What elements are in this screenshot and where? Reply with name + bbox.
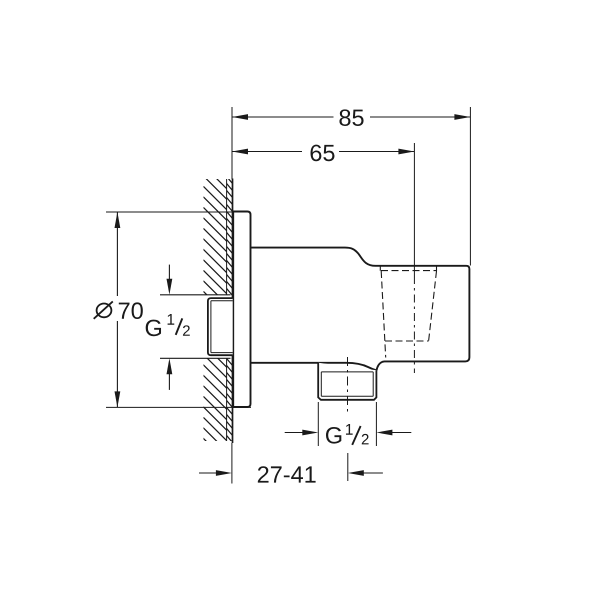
extension line wall top (85/65 left) bbox=[231, 107, 233, 179]
bottom G1/2 label bbox=[326, 424, 369, 445]
dimension 27-41 left arrow bbox=[199, 472, 217, 474]
dimension G1/2 rear: lower line bbox=[160, 357, 231, 359]
holder centerline dashed bbox=[413, 276, 415, 373]
extension line holder axis (65 right) bbox=[413, 143, 415, 276]
outlet centerline extension bbox=[347, 453, 349, 481]
body top profile bbox=[251, 248, 470, 371]
wall hatch fine band chevrons bbox=[227, 177, 233, 443]
dimension 27-41 right arrow bbox=[363, 472, 383, 474]
rear connector G1/2 outer bbox=[208, 298, 233, 355]
27-41 value bbox=[258, 466, 316, 482]
body bottom line bbox=[251, 363, 377, 371]
rear G1/2 lower arrow bbox=[168, 374, 170, 390]
diameter symbol bbox=[94, 301, 113, 318]
outlet centerline bbox=[347, 357, 349, 413]
rear connector thread root lines bbox=[211, 301, 233, 353]
bottom G1/2 right arrow bbox=[392, 432, 411, 434]
dimension G1/2 rear: upper line bbox=[160, 294, 231, 296]
dimension D70 extension bottom bbox=[106, 406, 251, 408]
flange bbox=[233, 212, 250, 408]
dimension 85 bbox=[232, 116, 470, 118]
rear G1/2 upper arrow bbox=[168, 265, 170, 281]
wall face line bbox=[232, 179, 234, 444]
dimension D70 line bbox=[116, 212, 118, 407]
bottom G1/2 left arrow bbox=[285, 432, 303, 434]
dimension G1/2 bottom ext left bbox=[317, 402, 319, 446]
dimension 65 bbox=[232, 151, 414, 153]
wall hatch wide bbox=[0, 170, 509, 460]
wall fine band left line bbox=[226, 179, 228, 441]
rear G1/2 label bbox=[146, 314, 190, 336]
extension line body right end (85 right) bbox=[469, 107, 471, 266]
holder cup hidden outline bbox=[380, 266, 437, 358]
extension line wall bottom (27-41 left) bbox=[231, 443, 233, 484]
dimension G1/2 bottom ext right bbox=[375, 402, 377, 446]
outlet thread outer bbox=[318, 363, 376, 400]
outlet thread root lines bbox=[321, 372, 373, 396]
dimension D70 extension top bbox=[106, 211, 234, 213]
70 value bbox=[119, 302, 143, 319]
